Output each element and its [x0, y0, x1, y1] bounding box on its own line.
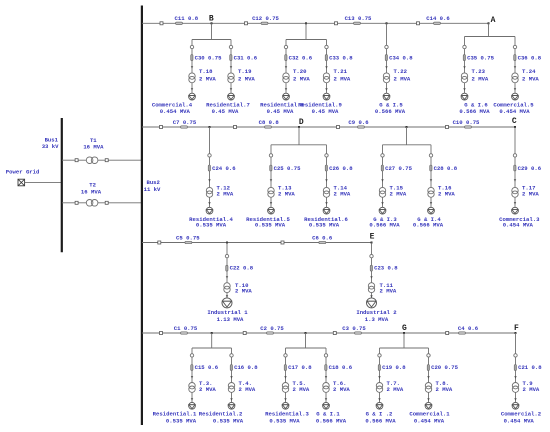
svg-text:C30 0.75: C30 0.75	[195, 55, 222, 62]
svg-text:0.566 MVA: 0.566 MVA	[369, 221, 400, 228]
cable C32	[285, 55, 313, 62]
svg-text:B: B	[209, 15, 214, 24]
flow arrow	[191, 376, 193, 379]
svg-text:0.454 MVA: 0.454 MVA	[414, 418, 445, 425]
flow arrow	[381, 202, 383, 205]
label G &amp; I .2 0.566 MVA	[365, 410, 396, 424]
wire branch C29	[514, 127, 516, 207]
svg-text:G & I .2: G & I .2	[366, 410, 393, 417]
svg-text:C35 0.75: C35 0.75	[467, 55, 494, 62]
wire branch C21	[515, 333, 517, 402]
svg-text:Industrial 1: Industrial 1	[207, 309, 248, 316]
flow arrow	[208, 179, 210, 182]
cable C11	[175, 15, 199, 24]
load Commercial.4	[189, 93, 196, 100]
svg-text:T.23: T.23	[472, 68, 486, 75]
svg-text:C27 0.75: C27 0.75	[385, 165, 412, 172]
cable C6	[312, 234, 333, 243]
svg-text:G: G	[402, 324, 407, 333]
flow arrow	[385, 66, 387, 69]
svg-text:C4 0.6: C4 0.6	[458, 325, 479, 332]
svg-text:Commercial.2: Commercial.2	[501, 410, 542, 417]
cable C35	[463, 55, 494, 62]
svg-text:F: F	[514, 324, 519, 333]
wire branch C36	[514, 37, 516, 94]
label Commercial.3 0.454 MVA	[499, 216, 540, 229]
flow arrow	[226, 295, 228, 298]
switch on branch C31	[229, 45, 232, 48]
svg-text:C15 0.6: C15 0.6	[195, 364, 219, 371]
wire branch C15	[191, 348, 193, 402]
flow arrow	[514, 66, 516, 69]
label G &amp; I.1 0.566 MVA	[316, 410, 347, 424]
node F	[514, 324, 519, 333]
svg-text:C33 0.8: C33 0.8	[329, 55, 353, 62]
transformer T.12 2 MVA	[206, 185, 234, 198]
svg-text:2 MVA: 2 MVA	[522, 191, 539, 198]
transformer T1	[62, 157, 141, 164]
flow arrow	[514, 202, 516, 205]
load G &amp; I.3	[379, 207, 386, 214]
svg-text:Power Grid: Power Grid	[6, 168, 40, 175]
switch on branch C19	[378, 354, 381, 357]
flow arrow	[514, 376, 516, 379]
cable C10	[453, 119, 480, 128]
flow arrow	[191, 398, 193, 401]
node E	[370, 233, 375, 242]
junction and drop wire	[383, 126, 432, 145]
flow arrow	[325, 202, 327, 205]
svg-text:C18 0.6: C18 0.6	[329, 364, 353, 371]
svg-text:Residential.2: Residential.2	[199, 410, 243, 417]
svg-text:2 MVA: 2 MVA	[387, 386, 404, 393]
flow arrow	[463, 66, 465, 69]
junction	[514, 126, 516, 128]
wire feeder 1	[142, 22, 489, 24]
svg-text:C5 0.75: C5 0.75	[176, 234, 200, 241]
load Residential.2	[228, 402, 235, 409]
node B	[209, 15, 214, 24]
switch on branch C30	[190, 45, 193, 48]
junction and drop wire	[286, 332, 327, 348]
junction and drop wire	[192, 22, 231, 39]
transformer T.23 2 MVA	[461, 68, 489, 83]
wire power grid to Bus1	[25, 181, 61, 183]
svg-text:C17 0.8: C17 0.8	[288, 364, 312, 371]
switch on feeder	[333, 332, 336, 335]
transformer T.19 2 MVA	[228, 68, 256, 83]
switch on branch C33	[325, 45, 328, 48]
load Residential.4	[206, 207, 213, 214]
svg-text:A: A	[491, 16, 496, 25]
flow arrow	[208, 202, 210, 205]
wire branch C17	[285, 348, 287, 402]
switch on feeder	[335, 22, 338, 25]
svg-text:0.535 MVA: 0.535 MVA	[213, 418, 244, 425]
cable C2	[260, 325, 284, 334]
switch on feeder	[245, 22, 248, 25]
svg-text:C22 0.8: C22 0.8	[230, 265, 254, 272]
wire feeder 2	[142, 126, 515, 128]
svg-text:0.566 MVA: 0.566 MVA	[365, 418, 396, 425]
svg-text:E: E	[370, 233, 375, 242]
flow arrow	[370, 276, 372, 279]
transformer T.16 2 MVA	[428, 185, 456, 198]
svg-text:C28 0.8: C28 0.8	[434, 165, 458, 172]
svg-text:C1 0.75: C1 0.75	[174, 325, 198, 332]
wire branch C24	[209, 127, 211, 207]
load Residential.8	[283, 93, 290, 100]
flow arrow	[430, 179, 432, 182]
svg-text:2 MVA: 2 MVA	[217, 191, 234, 198]
svg-text:C6 0.6: C6 0.6	[312, 234, 333, 241]
junction	[386, 22, 388, 24]
svg-text:0.535 MVA: 0.535 MVA	[309, 221, 340, 228]
cable C5	[176, 234, 200, 243]
svg-text:C8 0.8: C8 0.8	[259, 119, 280, 126]
cable C36	[514, 55, 542, 62]
svg-text:0.454 MVA: 0.454 MVA	[503, 221, 534, 228]
switch on branch C21	[514, 354, 517, 357]
node A	[491, 16, 496, 25]
busbar Bus2	[141, 6, 143, 426]
junction	[371, 242, 373, 244]
cable C23	[370, 265, 398, 272]
switch on branch C17	[284, 354, 287, 357]
wire feeder 3	[142, 242, 372, 244]
flow arrow	[285, 88, 287, 91]
flow arrow	[514, 398, 516, 401]
switch on feeder	[446, 332, 449, 335]
svg-text:2 MVA: 2 MVA	[333, 386, 350, 393]
load Residential.3	[282, 402, 289, 409]
svg-text:2 MVA: 2 MVA	[436, 386, 453, 393]
cable C33	[325, 55, 353, 62]
flow arrow	[378, 376, 380, 379]
cable C8	[259, 119, 280, 128]
transformer T.18 2 MVA	[189, 68, 217, 83]
svg-text:33 kV: 33 kV	[42, 143, 59, 150]
transformer T.17 2 MVA	[512, 185, 540, 198]
svg-text:0.535 MVA: 0.535 MVA	[166, 418, 197, 425]
wire branch C25	[270, 145, 272, 208]
svg-text:C19 0.8: C19 0.8	[382, 364, 406, 371]
svg-text:C32 0.6: C32 0.6	[289, 55, 313, 62]
flow arrow	[325, 376, 327, 379]
load Commercial.3	[512, 207, 519, 214]
label Commercial.4 0.454 MVA	[152, 102, 193, 116]
node D	[299, 118, 304, 127]
transformer T.11 2 MVA	[368, 282, 397, 294]
wire branch C30	[191, 40, 193, 94]
power grid source	[18, 179, 25, 186]
label Commercial.1 0.454 MVA	[409, 410, 450, 424]
transformer T.10 2 MVA	[224, 282, 253, 294]
flow arrow	[230, 398, 232, 401]
svg-text:C25 0.75: C25 0.75	[274, 165, 301, 172]
switch on branch C29	[513, 154, 516, 157]
cable C26	[325, 165, 353, 172]
load G &amp; I.5	[383, 93, 390, 100]
load Commercial.1	[425, 402, 432, 409]
svg-text:2 MVA: 2 MVA	[199, 76, 216, 83]
svg-text:Residential.3: Residential.3	[265, 410, 309, 417]
load G &amp; I.1	[323, 402, 330, 409]
svg-text:C2 0.75: C2 0.75	[260, 325, 284, 332]
svg-text:C14 0.6: C14 0.6	[426, 15, 450, 22]
switch on branch C18	[324, 354, 327, 357]
flow arrow	[325, 66, 327, 69]
svg-text:2 MVA: 2 MVA	[522, 76, 539, 83]
cable C25	[270, 165, 301, 172]
flow arrow	[514, 88, 516, 91]
node G	[402, 324, 407, 333]
cable C14	[426, 15, 450, 24]
cable C3	[342, 325, 366, 334]
label Residential.2 0.535 MVA	[199, 410, 244, 424]
svg-text:0.45 MVA: 0.45 MVA	[212, 108, 239, 115]
flow arrow	[381, 179, 383, 182]
switch on branch C35	[463, 45, 466, 48]
flow arrow	[430, 202, 432, 205]
cable C29	[514, 165, 542, 172]
svg-text:C13 0.75: C13 0.75	[345, 15, 372, 22]
svg-text:11 kV: 11 kV	[144, 186, 161, 193]
flow arrow	[427, 376, 429, 379]
svg-text:0.535 MVA: 0.535 MVA	[269, 418, 300, 425]
wire branch C35	[464, 37, 466, 94]
label Industrial 2 1.3 MVA	[356, 309, 397, 323]
cable C22	[226, 265, 254, 272]
svg-text:2 MVA: 2 MVA	[390, 191, 407, 198]
wire branch C20	[428, 348, 430, 402]
svg-text:0.566 MVA: 0.566 MVA	[413, 221, 444, 228]
svg-text:D: D	[299, 118, 304, 127]
wire branch C34	[386, 23, 388, 93]
label Residential.4 0.535 MVA	[189, 216, 233, 229]
svg-text:C12 0.75: C12 0.75	[252, 15, 279, 22]
cable C31	[230, 55, 258, 62]
transformer T.14 2 MVA	[323, 185, 351, 198]
svg-text:2 MVA: 2 MVA	[199, 386, 216, 393]
switch on branch C34	[385, 45, 388, 48]
load Residential.9	[323, 93, 330, 100]
svg-text:C29 0.6: C29 0.6	[518, 165, 542, 172]
svg-text:Commercial.1: Commercial.1	[409, 410, 450, 417]
busbar Bus1	[61, 118, 63, 252]
svg-text:T.21: T.21	[334, 68, 348, 75]
load Commercial.2	[512, 402, 519, 409]
load G &amp; I.6	[461, 93, 468, 100]
flow arrow	[226, 276, 228, 279]
wire branch C27	[382, 145, 384, 208]
flow arrow	[270, 202, 272, 205]
wire branch C16	[231, 348, 233, 402]
label G &amp; I.3 0.566 MVA	[369, 216, 400, 229]
transformer T.4. 2 MVA	[228, 380, 256, 393]
svg-text:0.566 MVA: 0.566 MVA	[375, 108, 406, 115]
switch on feeder	[234, 126, 237, 129]
transformer T.21 2 MVA	[323, 68, 351, 83]
flow arrow	[378, 398, 380, 401]
cable C34	[385, 55, 413, 62]
junction	[209, 126, 211, 128]
wire branch C28	[430, 145, 432, 208]
label Residential.1 0.535 MVA	[153, 410, 197, 424]
svg-text:T.18: T.18	[199, 68, 213, 75]
switch on feeder	[160, 22, 163, 25]
flow arrow	[270, 179, 272, 182]
load G &amp; I.4	[428, 207, 435, 214]
switch on branch C27	[381, 154, 384, 157]
switch on branch C20	[427, 354, 430, 357]
svg-text:2 MVA: 2 MVA	[238, 76, 255, 83]
cable C15	[191, 364, 219, 371]
svg-text:16 MVA: 16 MVA	[83, 144, 104, 151]
svg-text:0.535 MVA: 0.535 MVA	[255, 221, 286, 228]
svg-text:C11 0.8: C11 0.8	[175, 15, 199, 22]
cable C27	[381, 165, 412, 172]
wire branch C18	[325, 348, 327, 402]
load Residential.5	[268, 207, 275, 214]
svg-text:C20 0.75: C20 0.75	[431, 364, 458, 371]
transformer T.20 2 MVA	[283, 68, 311, 83]
wire branch C32	[285, 40, 287, 94]
load Commercial.5	[512, 93, 519, 100]
switch on feeder	[160, 126, 163, 129]
junction and drop wire	[286, 22, 327, 39]
load Residential.7	[228, 93, 235, 100]
svg-text:0.566 MVA: 0.566 MVA	[316, 418, 347, 425]
flow arrow	[385, 88, 387, 91]
svg-text:C: C	[512, 117, 517, 126]
svg-text:Bus2: Bus2	[146, 179, 160, 186]
svg-text:C3 0.75: C3 0.75	[342, 325, 366, 332]
cable C19	[378, 364, 406, 371]
svg-text:C34 0.8: C34 0.8	[389, 55, 413, 62]
svg-text:C16 0.8: C16 0.8	[234, 364, 258, 371]
transformer T.9 2 MVA	[512, 380, 540, 393]
flow arrow	[427, 398, 429, 401]
svg-text:2 MVA: 2 MVA	[380, 287, 397, 294]
label Bus1 33 kV	[42, 136, 59, 150]
node C	[512, 117, 517, 126]
cable C4	[458, 325, 479, 334]
transformer T.8. 2 MVA	[425, 380, 453, 393]
flow arrow	[514, 179, 516, 182]
svg-text:2 MVA: 2 MVA	[334, 191, 351, 198]
label Residential.7 0.45 MVA	[206, 102, 250, 116]
svg-text:C36 0.8: C36 0.8	[518, 55, 542, 62]
switch on feeder	[417, 22, 420, 25]
svg-text:0.535 MVA: 0.535 MVA	[196, 221, 227, 228]
flow arrow	[325, 179, 327, 182]
cable C1	[174, 325, 198, 334]
junction	[226, 242, 228, 244]
svg-text:Industrial 2: Industrial 2	[356, 309, 397, 316]
wire branch C31	[230, 40, 232, 94]
transformer T.15 2 MVA	[379, 185, 407, 198]
label Residential.8 0.45 MVA	[260, 102, 304, 116]
wire branch C26	[326, 145, 328, 208]
svg-text:C31 0.6: C31 0.6	[234, 55, 258, 62]
cable C20	[427, 364, 458, 371]
wire branch C22	[226, 243, 228, 298]
svg-text:2 MVA: 2 MVA	[472, 76, 489, 83]
svg-text:2 MVA: 2 MVA	[278, 191, 295, 198]
cable C24	[208, 165, 236, 172]
label Residential.3 0.535 MVA	[265, 410, 309, 424]
switch on branch C24	[208, 154, 211, 157]
svg-text:T2: T2	[89, 181, 96, 188]
svg-text:0.454 MVA: 0.454 MVA	[160, 108, 191, 115]
flow arrow	[230, 88, 232, 91]
cable C28	[430, 165, 458, 172]
load Residential.1	[189, 402, 196, 409]
flow arrow	[284, 398, 286, 401]
transformer T.24 2 MVA	[512, 68, 540, 83]
svg-text:C26 0.8: C26 0.8	[329, 165, 353, 172]
load Residential.6	[323, 207, 330, 214]
svg-text:C7 0.75: C7 0.75	[173, 119, 197, 126]
svg-text:0.454 MVA: 0.454 MVA	[499, 108, 530, 115]
svg-text:1.3 MVA: 1.3 MVA	[365, 316, 389, 323]
label Bus2 11 kV	[144, 179, 161, 193]
switch on feeder	[158, 241, 161, 244]
svg-text:C9 0.6: C9 0.6	[348, 119, 369, 126]
transformer T.6. 2 MVA	[323, 380, 351, 393]
load Industrial 1	[222, 298, 232, 308]
svg-text:C10 0.75: C10 0.75	[453, 119, 480, 126]
label Commercial.2 0.454 MVA	[501, 410, 542, 424]
cable C12	[252, 15, 279, 24]
transformer T.7. 2 MVA	[376, 380, 404, 393]
junction and drop wire	[465, 22, 516, 36]
switch on feeder	[446, 126, 449, 129]
label T1 16 MVA	[83, 137, 104, 151]
cable C7	[173, 119, 197, 128]
wire branch C23	[371, 243, 373, 298]
label Power Grid	[6, 168, 40, 175]
label G &amp; I.6 0.566 MVA	[459, 102, 490, 116]
flow arrow	[285, 66, 287, 69]
label T2 16 MVA	[81, 181, 102, 195]
svg-text:0.45 MVA: 0.45 MVA	[312, 108, 339, 115]
svg-text:T.22: T.22	[394, 68, 408, 75]
flow arrow	[284, 376, 286, 379]
svg-text:2 MVA: 2 MVA	[293, 386, 310, 393]
svg-text:0.454 MVA: 0.454 MVA	[504, 418, 535, 425]
svg-text:2 MVA: 2 MVA	[235, 287, 252, 294]
svg-text:T.19: T.19	[238, 68, 252, 75]
cable C17	[284, 364, 312, 371]
flow arrow	[370, 295, 372, 298]
switch on feeder	[243, 332, 246, 335]
svg-text:0.45 MVA: 0.45 MVA	[267, 108, 294, 115]
transformer T.5. 2 MVA	[282, 380, 310, 393]
flow arrow	[191, 88, 193, 91]
switch on branch C26	[325, 154, 328, 157]
load Industrial 2	[367, 298, 377, 308]
transformer T2	[62, 200, 141, 207]
svg-text:1.13 MVA: 1.13 MVA	[217, 316, 244, 323]
cable C9	[348, 119, 369, 128]
svg-text:2 MVA: 2 MVA	[438, 191, 455, 198]
svg-text:2 MVA: 2 MVA	[523, 386, 540, 393]
svg-text:2 MVA: 2 MVA	[293, 76, 310, 83]
junction and drop wire	[380, 332, 429, 348]
svg-text:2 MVA: 2 MVA	[239, 386, 256, 393]
